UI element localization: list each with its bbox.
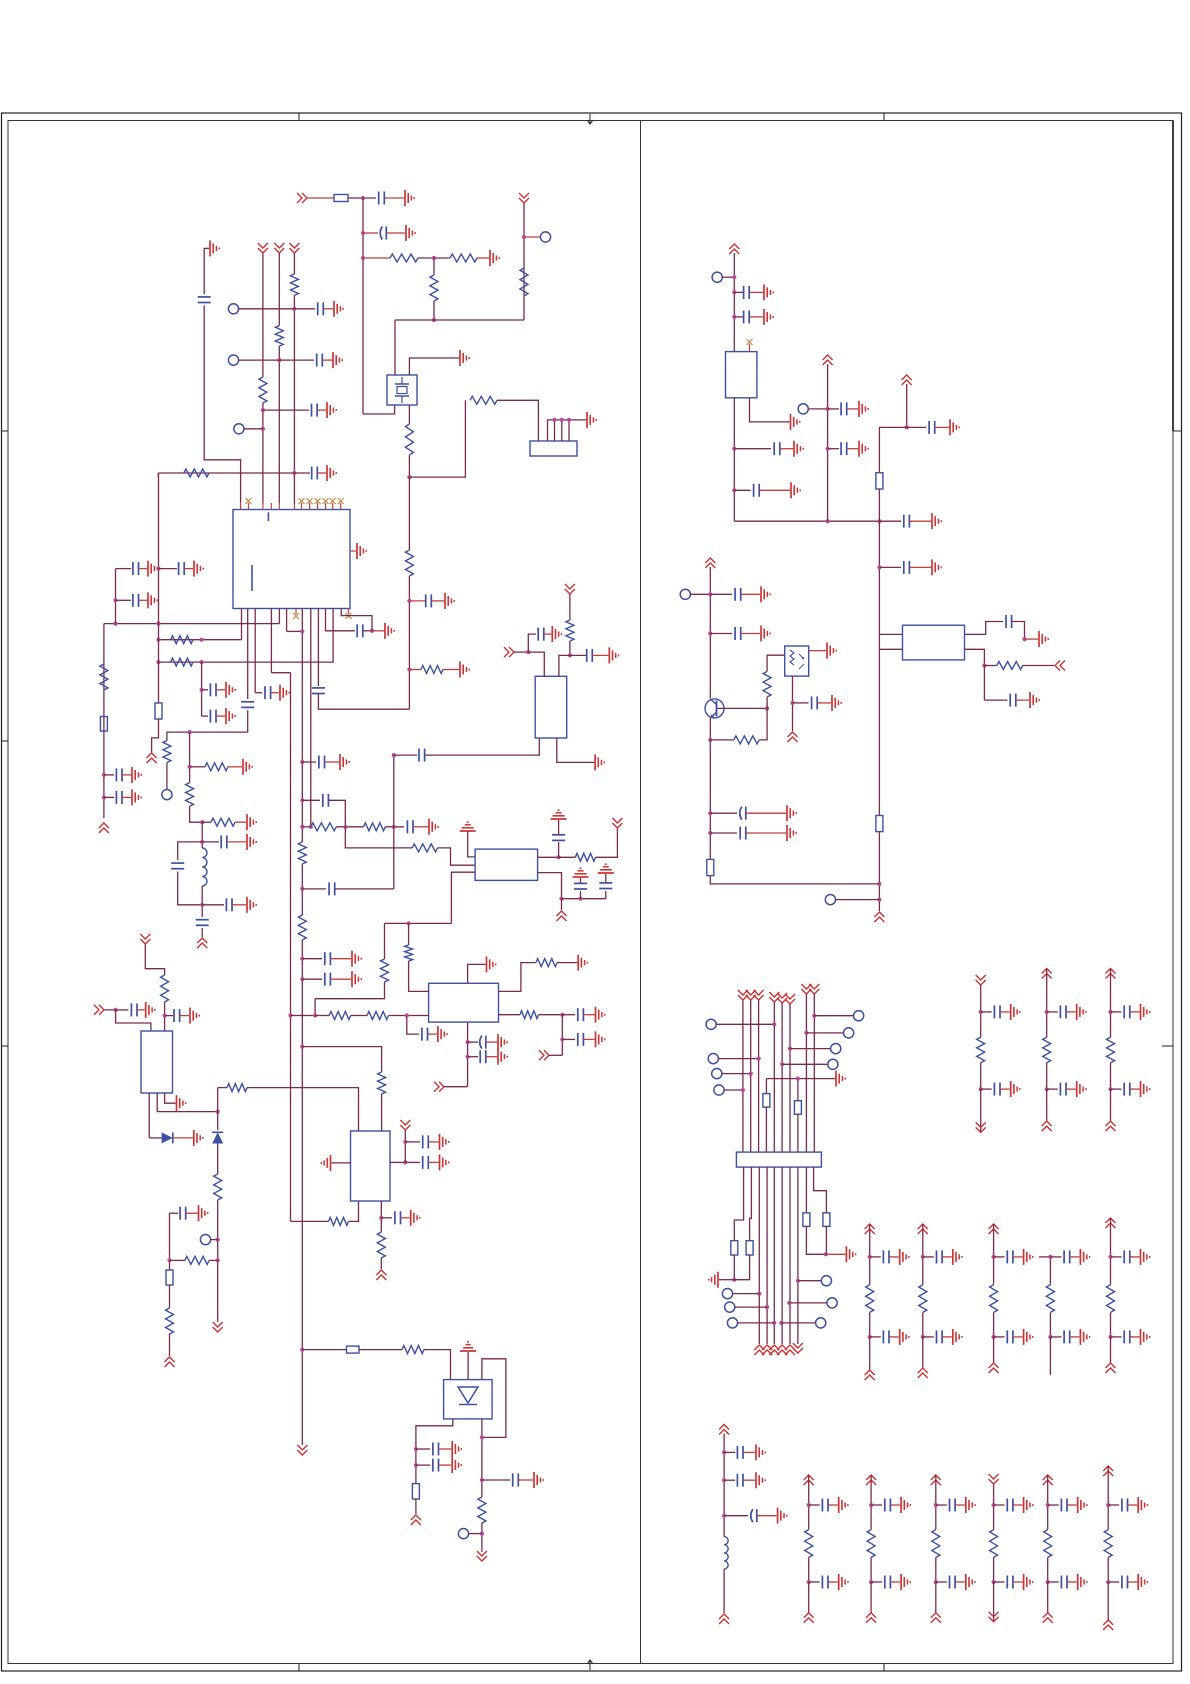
junction: [1048, 1335, 1052, 1339]
wire: [443, 669, 459, 671]
wire: [935, 426, 949, 428]
wire: [468, 831, 475, 857]
border tick right mid: [1173, 430, 1182, 432]
junction: [432, 256, 436, 260]
resistor: [919, 1285, 927, 1313]
wire: [741, 633, 760, 635]
power arrow: [918, 1224, 928, 1234]
capacitor C23: [318, 756, 320, 769]
wire: [317, 409, 326, 411]
power arrow: [785, 1345, 795, 1355]
ground: [1079, 1329, 1081, 1345]
wire: [115, 569, 117, 624]
wire: [549, 1054, 562, 1056]
capacitor: [1123, 1250, 1125, 1263]
capacitor C15: [115, 768, 117, 781]
capacitor: [1063, 1250, 1065, 1263]
power arrow: [477, 1551, 487, 1561]
ground: [332, 352, 334, 368]
junction: [216, 1110, 220, 1114]
wire: [1130, 1256, 1140, 1258]
capacitor C48: [734, 588, 736, 601]
junction: [807, 1580, 811, 1584]
ground: [1077, 1574, 1079, 1590]
pin circle: [706, 1019, 716, 1029]
wire: [828, 448, 839, 450]
wire U5 pin b: [157, 1093, 218, 1112]
resistor R39: [734, 736, 759, 744]
wire: [216, 689, 225, 691]
border arrow top: [587, 114, 593, 124]
wire: [907, 426, 926, 428]
wire bundle: [789, 1004, 791, 1152]
wire: [444, 1086, 468, 1088]
resistor: [867, 1530, 875, 1558]
ground: [439, 1134, 441, 1150]
power arrow: [1106, 1218, 1116, 1228]
wire U7 gnd pin: [750, 398, 790, 422]
ferrite bead FB11: [746, 1241, 753, 1255]
wire: [216, 715, 225, 717]
crystal Y1 box: [387, 375, 417, 405]
wire row898: [562, 898, 606, 900]
border tick bottom-right: [883, 1664, 885, 1672]
capacitor: [1123, 1005, 1125, 1018]
junction: [732, 315, 736, 319]
wire: [734, 1306, 767, 1308]
wire: [228, 766, 242, 768]
power arrow: [793, 1343, 803, 1353]
wire: [1130, 1336, 1140, 1338]
wire bundle: [750, 1000, 752, 1152]
junction: [163, 1014, 167, 1018]
column divider: [640, 121, 642, 1664]
wire: [936, 1504, 947, 1506]
capacitor: [1121, 1576, 1123, 1589]
capacitor C22: [196, 919, 209, 921]
junction: [708, 831, 712, 835]
border right dark segment: [1172, 121, 1174, 432]
power arrow: [400, 1120, 410, 1130]
ground: [777, 1508, 779, 1524]
capacitor: [1121, 1499, 1123, 1512]
wire: [1013, 1581, 1023, 1583]
capacitor C61: [421, 1028, 423, 1041]
resistor: [1046, 1285, 1054, 1313]
wire: [1000, 1088, 1010, 1090]
wire U3 pin2: [451, 872, 475, 923]
power arrow: [719, 1425, 729, 1435]
wire: [137, 1009, 145, 1011]
junction: [405, 1013, 409, 1017]
capacitor: [993, 1005, 995, 1018]
wire: [806, 1032, 844, 1034]
capacitor C27: [324, 952, 326, 965]
wire colA1: [980, 1012, 982, 1037]
power arrow: [99, 823, 109, 833]
ground: [486, 956, 488, 972]
wire: [287, 630, 303, 632]
pin circle: [680, 589, 690, 599]
wire: [569, 594, 571, 620]
wire: [408, 923, 410, 945]
ground: [189, 1008, 191, 1024]
junction: [877, 898, 881, 902]
power arrow: [769, 992, 779, 1002]
junction: [757, 1292, 761, 1296]
wire net1 vertical: [362, 198, 364, 414]
resistor: [977, 1037, 985, 1062]
junction: [200, 638, 204, 642]
wire: [407, 1016, 419, 1035]
resistor R8: [421, 666, 443, 674]
wire bus2 bottom row: [302, 1349, 346, 1351]
resistor R30: [161, 975, 169, 1002]
junction: [113, 598, 117, 602]
ground: [460, 1350, 476, 1352]
junction: [765, 1305, 769, 1309]
wire colC1: [808, 1505, 810, 1530]
wire: [190, 766, 205, 768]
wire: [166, 763, 168, 791]
wire: [790, 1048, 831, 1050]
wire colC1: [808, 1475, 810, 1505]
ground: [1023, 1329, 1025, 1345]
wire: [486, 1056, 497, 1058]
ground: [1038, 631, 1040, 647]
wire U5 pin a: [148, 1093, 150, 1138]
junction: [343, 825, 347, 829]
wire bundle: [758, 1000, 760, 1152]
wire bundle: [765, 1079, 767, 1094]
wire: [719, 1279, 734, 1281]
ferrite bead FB1: [155, 703, 162, 719]
ground: [147, 592, 149, 608]
wire colB1: [869, 1337, 871, 1370]
wire v393: [393, 755, 395, 889]
wire: [1048, 1504, 1059, 1506]
no-connect x: [299, 498, 305, 504]
wire: [336, 826, 363, 828]
capacitor C46: [1005, 615, 1007, 628]
junction: [216, 1258, 220, 1262]
junction: [790, 701, 794, 705]
wire colC3: [935, 1505, 937, 1530]
capacitor C9b: [264, 686, 266, 699]
pin circle: [854, 1011, 864, 1021]
wire net row: [395, 319, 524, 321]
junction: [292, 471, 296, 475]
wire: [202, 715, 208, 717]
pin circle: [708, 1054, 718, 1064]
wire: [809, 650, 826, 652]
ground: [1140, 1004, 1142, 1020]
junction: [708, 738, 712, 742]
junction: [708, 811, 712, 815]
wire: [984, 665, 996, 667]
wire: [936, 1581, 947, 1583]
junction: [292, 307, 296, 311]
junction: [300, 887, 304, 891]
junction: [156, 660, 160, 664]
wire: [749, 291, 763, 293]
resistor R28: [378, 1072, 386, 1094]
capacitor: [1123, 1083, 1125, 1096]
power arrow: [931, 1475, 941, 1485]
wire colB5: [1110, 1337, 1112, 1363]
capacitor: [949, 1576, 951, 1589]
wire: [307, 197, 334, 199]
junction: [567, 418, 571, 422]
wire bus1: [290, 673, 292, 1222]
junction: [288, 1013, 292, 1017]
resistor R6: [470, 396, 497, 404]
capacitor C38: [743, 310, 745, 323]
ground: [952, 1329, 954, 1345]
wire crystal bottom jog: [363, 405, 395, 414]
capacitor: [949, 1499, 951, 1512]
pin circle: [798, 404, 808, 414]
capacitor: [1006, 1330, 1008, 1343]
wire: [734, 316, 743, 318]
wire: [468, 1041, 478, 1043]
wire: [828, 1581, 838, 1583]
IC U1 bottom pin: [310, 609, 312, 827]
wire: [384, 923, 386, 959]
wire: [326, 609, 356, 631]
wire U5 pin c: [165, 1093, 176, 1103]
junction: [868, 1255, 872, 1259]
wire: [709, 567, 711, 699]
power arrow: [1042, 1121, 1052, 1131]
junction: [300, 977, 304, 981]
junction: [1108, 1010, 1112, 1014]
wire colC4: [993, 1505, 995, 1530]
wire: [348, 197, 376, 199]
power arrow: [1043, 1613, 1053, 1623]
wire: [330, 978, 351, 980]
ground: [1140, 1081, 1142, 1097]
ground: [595, 1007, 597, 1023]
wire U3 pin4: [538, 856, 559, 858]
wire colC3: [935, 1475, 937, 1505]
wire U9 right pin: [390, 1161, 405, 1163]
wire: [413, 826, 428, 828]
capacitor C33: [394, 1211, 396, 1224]
capacitor C18: [209, 710, 211, 723]
resistor R41: [412, 844, 437, 852]
power arrow: [376, 1270, 386, 1280]
junction: [722, 1450, 726, 1454]
junction: [414, 1463, 418, 1467]
wire: [178, 842, 203, 860]
wire: [186, 1212, 198, 1214]
wire: [190, 806, 203, 822]
wire: [380, 1258, 382, 1269]
wire: [583, 1038, 594, 1040]
junction: [1108, 1255, 1112, 1259]
wire: [710, 832, 737, 834]
wire: [562, 1038, 575, 1040]
wire U8 in1: [879, 633, 902, 635]
wire: [562, 1014, 575, 1016]
power arrow: [274, 243, 284, 253]
wire colA1: [980, 1063, 982, 1089]
power arrow: [94, 1005, 104, 1015]
wire: [431, 600, 444, 602]
resistor R27: [405, 945, 413, 961]
wire: [482, 1479, 510, 1481]
wire U8 out1: [965, 622, 1004, 635]
junction: [1106, 1503, 1110, 1507]
wire: [481, 1523, 483, 1552]
wire: [201, 822, 203, 848]
wire: [169, 1213, 171, 1270]
power arrow: [866, 1613, 876, 1623]
wire colB3: [993, 1337, 995, 1363]
IC U1 bottom pin: [278, 609, 280, 624]
IC U1 top pin: [270, 503, 272, 510]
wire: [743, 1479, 755, 1481]
junction: [114, 1008, 118, 1012]
wire: [302, 888, 326, 890]
wire colC4: [993, 1484, 995, 1505]
resistor R10: [275, 326, 283, 347]
wire: [746, 812, 786, 814]
wire: [806, 1226, 825, 1254]
capacitor C8: [311, 467, 313, 480]
wire: [173, 1137, 193, 1139]
wire: [847, 408, 858, 410]
wire: [879, 427, 906, 472]
capacitor C16: [115, 791, 117, 804]
ground: [451, 1441, 453, 1457]
no-connect x: [338, 498, 344, 504]
ground: [845, 1246, 847, 1262]
capacitor: [1059, 1005, 1061, 1018]
pin circle: [228, 355, 238, 365]
junction: [757, 1057, 761, 1061]
junction: [812, 1014, 816, 1018]
wire: [518, 1479, 533, 1481]
wire rail710: [709, 740, 711, 860]
resistor R26: [381, 959, 389, 982]
wire colA2: [1046, 1012, 1048, 1037]
wire: [732, 1293, 759, 1295]
wire colB5: [1110, 1218, 1112, 1257]
capacitor C65: [577, 1033, 579, 1046]
wire colA2: [1046, 1063, 1048, 1089]
capacitor C31: [130, 1003, 132, 1016]
capacitor C2 polarized: [380, 227, 382, 240]
wire: [428, 1141, 438, 1143]
wire row568b: [159, 568, 178, 570]
wire: [561, 899, 563, 910]
wire bundle: [781, 1003, 783, 1152]
wire colB3: [993, 1224, 995, 1257]
wire bundle: [773, 1002, 775, 1152]
ground: [145, 1002, 147, 1018]
wire: [302, 978, 322, 980]
capacitor C39: [773, 442, 775, 455]
IC U1 top pin: [293, 503, 295, 510]
wire conn pin4: [561, 420, 563, 441]
wire: [724, 1451, 735, 1453]
wire: [271, 692, 279, 694]
junction: [407, 599, 411, 603]
ground: [1140, 1249, 1142, 1265]
wire: [217, 1200, 219, 1322]
transistor Q1: [705, 699, 724, 718]
capacitor C42: [840, 442, 842, 455]
wire row600: [116, 599, 132, 601]
wire: [1047, 1011, 1058, 1013]
wire colA3: [1110, 969, 1112, 1012]
capacitor C19: [220, 835, 222, 848]
wire: [767, 655, 785, 671]
wire: [1025, 638, 1039, 640]
IC U1 bottom pin: [241, 609, 243, 640]
junction: [300, 1045, 304, 1049]
wire: [404, 1130, 406, 1162]
junction: [921, 1255, 925, 1259]
wire: [781, 1322, 816, 1324]
junction: [300, 1348, 304, 1352]
wire colC6: [1107, 1505, 1109, 1530]
junction: [300, 629, 304, 633]
power arrow: [213, 1322, 223, 1332]
wire U4 top pin: [468, 964, 486, 983]
resistor: [1107, 1285, 1115, 1313]
wire: [1111, 1336, 1122, 1338]
wire: [889, 1336, 899, 1338]
wire: [870, 1336, 881, 1338]
ground: [1140, 1329, 1142, 1345]
wire: [149, 1137, 161, 1139]
resistor R23: [364, 823, 386, 831]
wire crystal bottom: [408, 405, 410, 424]
wire U6 wrap: [482, 1359, 506, 1438]
earth ground: [573, 876, 589, 878]
wire: [809, 1504, 820, 1506]
wire: [1130, 1011, 1140, 1013]
pin circle: [540, 232, 550, 242]
wire bundle: [797, 1079, 799, 1101]
capacitor C45: [903, 561, 905, 574]
capacitor C53: [736, 1446, 738, 1459]
wire row5h: [158, 472, 310, 474]
junction: [407, 667, 411, 671]
wire conn pin2: [548, 420, 587, 441]
IC U1 top pin nc: [332, 503, 334, 510]
capacitor C52: [739, 827, 741, 840]
wire: [1050, 1336, 1061, 1338]
wire: [415, 1499, 417, 1514]
ground: [209, 240, 211, 256]
ground: [333, 301, 335, 317]
junction: [804, 1031, 808, 1035]
wire: [583, 1014, 594, 1016]
IC U1 bottom pin: [270, 609, 272, 673]
ferrite bead FB12: [803, 1213, 810, 1227]
ground: [786, 805, 788, 821]
wire: [314, 999, 316, 1016]
pin circle: [722, 1289, 732, 1299]
ground: [198, 1205, 200, 1221]
pin circle: [831, 1044, 841, 1054]
resistor R4: [520, 268, 528, 296]
junction: [868, 1335, 872, 1339]
